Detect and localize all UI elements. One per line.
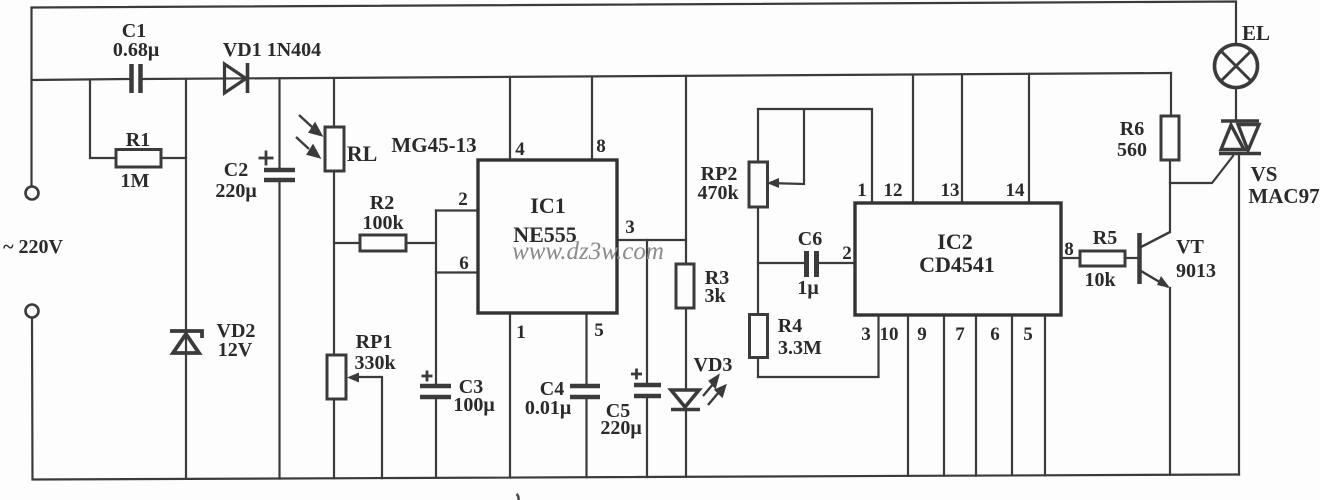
svg-text:5: 5: [594, 320, 604, 341]
svg-text:12: 12: [884, 180, 903, 201]
svg-text:RL: RL: [347, 141, 378, 166]
svg-text:6: 6: [459, 253, 469, 274]
svg-text:CD4541: CD4541: [919, 252, 995, 277]
svg-text:R4: R4: [778, 315, 802, 337]
svg-text:4: 4: [515, 139, 525, 160]
svg-text:220μ: 220μ: [600, 417, 642, 439]
svg-text:100μ: 100μ: [453, 394, 495, 416]
svg-text:C6: C6: [798, 228, 822, 250]
svg-text:2: 2: [842, 243, 852, 264]
svg-text:IC2: IC2: [937, 229, 972, 254]
svg-text:MG45-13: MG45-13: [391, 133, 476, 157]
svg-text:560: 560: [1117, 139, 1147, 161]
svg-text:3: 3: [625, 217, 635, 238]
svg-text:330k: 330k: [354, 352, 396, 374]
svg-text:220μ: 220μ: [215, 180, 257, 202]
svg-text:6: 6: [990, 324, 1000, 345]
svg-text:9: 9: [917, 324, 927, 345]
svg-text:R2: R2: [370, 192, 394, 214]
svg-text:R6: R6: [1120, 118, 1144, 140]
svg-text:R1: R1: [126, 129, 150, 151]
svg-text:3k: 3k: [704, 285, 726, 307]
svg-text:100k: 100k: [362, 212, 404, 234]
svg-text:12V: 12V: [218, 339, 253, 361]
svg-text:RP1: RP1: [356, 331, 393, 353]
svg-text:VD3: VD3: [694, 354, 733, 376]
svg-text:VT: VT: [1176, 236, 1204, 258]
svg-text:www.dz3w.com: www.dz3w.com: [512, 238, 664, 265]
svg-text:IC1: IC1: [530, 193, 565, 218]
svg-text:2: 2: [458, 189, 468, 210]
svg-text:8: 8: [1064, 239, 1074, 260]
svg-text:8: 8: [596, 136, 606, 157]
svg-text:1: 1: [516, 322, 526, 343]
svg-text:470k: 470k: [697, 182, 739, 204]
svg-text:MAC97: MAC97: [1248, 184, 1319, 208]
svg-text:10: 10: [880, 324, 899, 345]
svg-text:1: 1: [857, 180, 867, 201]
svg-text:VD1 1N404: VD1 1N404: [223, 39, 321, 61]
svg-text:5: 5: [1023, 324, 1033, 345]
svg-text:9013: 9013: [1176, 260, 1216, 282]
svg-text:10k: 10k: [1084, 269, 1116, 291]
svg-text:0.01μ: 0.01μ: [525, 397, 572, 419]
svg-text:VS: VS: [1251, 162, 1278, 186]
svg-text:1M: 1M: [121, 170, 150, 192]
svg-text:R5: R5: [1093, 227, 1117, 249]
svg-text:7: 7: [955, 324, 965, 345]
svg-text:3.3M: 3.3M: [778, 337, 822, 359]
svg-text:13: 13: [941, 180, 960, 201]
svg-text:14: 14: [1006, 180, 1026, 201]
svg-text:~ 220V: ~ 220V: [3, 236, 63, 258]
svg-text:0.68μ: 0.68μ: [113, 39, 160, 61]
svg-text:3: 3: [861, 324, 871, 345]
svg-text:C2: C2: [224, 159, 248, 181]
svg-text:1μ: 1μ: [797, 277, 819, 299]
svg-text:EL: EL: [1242, 21, 1270, 45]
